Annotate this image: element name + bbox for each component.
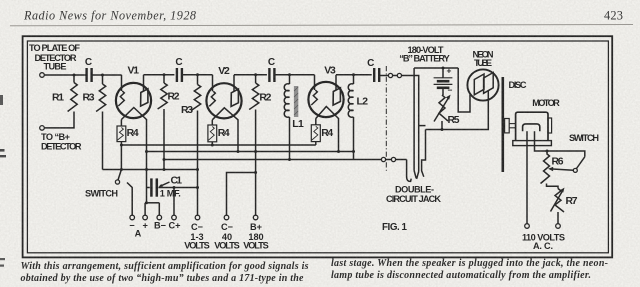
wire R7 bottom to 110V terminal (557, 212, 559, 224)
wire input to coupling cap C1stage (44, 74, 84, 76)
neon tube envelope (467, 69, 498, 100)
motor shaft bearing (505, 119, 510, 133)
wire battery top W1 (414, 67, 458, 69)
tube V3 envelope (308, 82, 343, 117)
scan mark (0, 149, 5, 152)
tube V2 filament (212, 108, 238, 120)
wire C output to jack break circles (379, 75, 388, 77)
switch blade (filament switch) (118, 170, 121, 181)
wire neon right lead to R5 bottom line (426, 91, 489, 130)
neon tube right plate (484, 73, 494, 94)
wire R4 stage2 bottom to L1 bus (211, 142, 213, 145)
node L1 choke top (288, 73, 291, 76)
wire R4 stage3 bottom to L1 bus end (315, 142, 317, 145)
motor base (513, 141, 552, 146)
tube V2 envelope (206, 83, 241, 118)
wire V1 plate to C stage2 (144, 74, 175, 76)
scan mark (0, 95, 3, 105)
inductor L2 (353, 75, 355, 84)
wire V2 right filament leg to H2 bus (237, 119, 239, 151)
switch contact circle (115, 180, 119, 184)
bus H2 (147, 151, 354, 153)
terminal to B+ detector (40, 126, 45, 131)
battery B 180V plates (442, 68, 444, 78)
bus H4 (103, 169, 198, 171)
wire R2 stage2 bottom down to B+180 terminal (255, 110, 257, 216)
motor field coil (523, 124, 540, 131)
wire C+ terminal drop (173, 188, 175, 216)
tube V3 grid lead (314, 75, 316, 90)
switch blade right (577, 157, 585, 169)
wire C-40 tap from B+ lead (227, 173, 256, 216)
terminals 110 volts AC (525, 224, 530, 229)
tube V1 filament (121, 108, 146, 120)
border frame outer (23, 36, 613, 257)
motor right bearing (548, 118, 552, 133)
wire battery bottom to R5 (442, 88, 444, 95)
jack prong 3 tip (417, 172, 419, 179)
rheostat R7 (555, 189, 564, 213)
wire V3 right filament leg to H2 bus (338, 118, 340, 152)
jack prongs 3-4 link (419, 125, 426, 127)
terminal C- 40 volts (224, 215, 229, 220)
motor body (516, 112, 548, 142)
resistor R6 (546, 151, 548, 154)
input terminal to plate of detector tube (40, 73, 45, 78)
tube V2 grid (209, 91, 215, 106)
disc (edge view) (501, 77, 504, 172)
node L2 choke top (352, 73, 355, 76)
wire motor right lead to R6/switch node (535, 131, 585, 157)
bus H3 / jack line (164, 159, 381, 161)
rheostat R5 (439, 95, 448, 121)
R6 tap arrow to switch (553, 169, 574, 170)
capacitor C stage3 (268, 68, 270, 82)
jack plug guide dash-dot line (385, 66, 387, 171)
wire R2 stage1 bottom to H4 (163, 109, 165, 170)
tube V1 grid (118, 91, 124, 106)
resistor R1 (68, 83, 78, 112)
node V1 leg on H4 (145, 168, 148, 171)
jack prong 2 from battery top (413, 68, 415, 171)
scan mark (0, 258, 5, 260)
tube V2 plate (231, 89, 238, 106)
wire L1 bottom to H3 bus (289, 117, 291, 160)
node L1 bus start at R4 stage1 (120, 144, 123, 147)
tube V1 grid lead (121, 75, 123, 91)
battery terminals row A (130, 215, 135, 220)
jack break contact circles top (388, 73, 392, 77)
resistor R4 stage2 (boxed) (211, 120, 213, 125)
header rule (10, 25, 633, 26)
wire L2 bottom to jack line H3 (353, 117, 355, 160)
tube V3 grid (311, 90, 317, 105)
capacitor C stage1 (85, 68, 87, 82)
tube V2 grid lead (212, 75, 214, 92)
wire R3 stage2 bottom down to C- 1-3V terminal (197, 111, 199, 216)
resistor R4 stage3 (boxed) (315, 118, 317, 125)
jack break contact circles lower (381, 157, 385, 161)
bus L1 filament (121, 144, 315, 146)
wire A+ B- tie (144, 203, 146, 215)
capacitor C stage2 (176, 68, 178, 82)
tube V1 plate (141, 89, 148, 106)
border frame inner (27, 41, 608, 253)
inductor L1 with core (289, 75, 291, 84)
wire R4 stage1 bottom through bus L1 to switch junction (120, 142, 122, 170)
wire V3 plate to C output (336, 74, 372, 76)
tube V1 plate lead (143, 75, 145, 91)
wire R5 bottom to jack prong 4 line (441, 121, 443, 130)
resistor R2 stage2 (249, 83, 259, 110)
wire R1 bottom to B+ detector terminal (44, 112, 74, 128)
resistor R3 stage2 (191, 85, 201, 111)
tube V1 envelope (116, 83, 151, 118)
jack prong 1 (407, 160, 412, 182)
tube V2 plate lead (233, 75, 235, 91)
terminal C- 1-3 volts (195, 215, 200, 220)
tube V3 plate lead (335, 75, 337, 90)
switch contact circle right (573, 168, 577, 172)
node R2 stage2 top (254, 73, 257, 76)
wire V1 right filament leg down to H4 (146, 119, 148, 203)
wire circles to jack prong 3 (402, 76, 419, 172)
resistor R4 stage1 (boxed) (120, 120, 122, 127)
capacitor C1 bypass (150, 178, 153, 196)
wire motor left lead to 110V terminal (526, 131, 528, 224)
resistor R2 stage1 (158, 83, 168, 109)
tube V3 filament (316, 107, 339, 119)
terminal B+ 180 volts (253, 215, 258, 220)
wire neon left lead to battery + (458, 68, 470, 112)
capacitor C output (373, 68, 375, 82)
wire R6 to R7 (547, 184, 559, 189)
node R3 stage1 top (101, 74, 104, 77)
node R2 stage1 top (163, 73, 166, 76)
wire V2 plate to C stage3 (234, 74, 267, 76)
node B+ drop on H2 (254, 150, 257, 153)
jack prong 4 (422, 130, 426, 177)
wire R3 stage1 bottom to bus H4 (102, 112, 104, 170)
wire C1 right plate to C+ drop and C- bias line (158, 187, 197, 189)
node R1 top junction (73, 74, 76, 77)
tube V3 plate (333, 88, 340, 105)
node R3 stage2 top (196, 73, 199, 76)
switch fixed contact and wire to A- terminal (127, 183, 132, 216)
neon tube left plate (474, 74, 484, 95)
resistor R3 stage1 (96, 84, 106, 111)
wire lower circles to jack prong 1 (396, 159, 407, 161)
